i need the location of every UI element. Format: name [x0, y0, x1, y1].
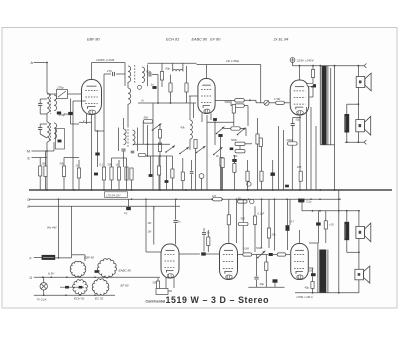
- tube V1 EBF80: [82, 80, 102, 115]
- arrow LS return end: [364, 140, 367, 144]
- svg-text:19r 1.8Ma: 19r 1.8Ma: [226, 59, 239, 63]
- wire: [103, 74, 105, 167]
- wire: [34, 62, 48, 64]
- antenna coil L2: [54, 95, 57, 111]
- wire: [148, 62, 197, 64]
- svg-text:520Ω: 520Ω: [256, 246, 262, 250]
- wire: [224, 128, 231, 130]
- svg-text:0.5M: 0.5M: [243, 247, 250, 251]
- resistor osc: [160, 72, 163, 81]
- switch S1a: [153, 124, 162, 131]
- oscillator coil bumps: [173, 69, 183, 71]
- wire: [289, 199, 291, 225]
- resistor 40k screen: [311, 70, 314, 78]
- wire: [257, 254, 269, 256]
- coupling capacitor blob: [201, 252, 206, 255]
- capacitor 0.1 box: [253, 216, 256, 224]
- B+ supply node: [290, 58, 295, 63]
- wire: [112, 157, 127, 159]
- svg-text:40µ: 40µ: [305, 286, 310, 290]
- wire: [45, 151, 47, 166]
- wire: [358, 211, 360, 226]
- svg-text:40µ: 40µ: [260, 282, 265, 286]
- svg-text:500k: 500k: [231, 138, 237, 142]
- wire: [46, 113, 48, 122]
- capacitor under: [256, 255, 258, 277]
- wire: [291, 145, 293, 190]
- wire: [127, 104, 129, 118]
- line right sub: [302, 210, 359, 212]
- svg-text:Continental: Continental: [146, 299, 166, 303]
- resistor 50k mid: [152, 103, 154, 190]
- antenna coil L1: [47, 93, 50, 113]
- wire: [310, 107, 312, 190]
- output transformer T4 secondary line: [327, 250, 329, 293]
- resistor 0.1: [185, 83, 188, 92]
- svg-text:ECH 81: ECH 81: [74, 296, 85, 300]
- wire: [47, 93, 57, 95]
- wire: [283, 130, 285, 190]
- wire: [32, 150, 55, 152]
- volume pot 500k: [235, 142, 245, 145]
- svg-text:225V +245V: 225V +245V: [296, 59, 315, 63]
- svg-text:27p: 27p: [106, 69, 112, 73]
- tube V6 EL84 lower: [291, 244, 309, 280]
- wire: [58, 199, 60, 258]
- heater envelope ECH81 b: [73, 280, 88, 295]
- wire: [274, 199, 276, 250]
- wire: [140, 155, 172, 157]
- wire: [95, 130, 104, 132]
- svg-text:EABC 80: EABC 80: [119, 268, 132, 272]
- svg-text:1519 W – 3 D – Stereo: 1519 W – 3 D – Stereo: [166, 295, 270, 305]
- wire: [330, 68, 332, 145]
- wire: [346, 133, 348, 143]
- switch S1d: [197, 146, 206, 153]
- heater envelope EC92: [92, 279, 109, 296]
- speaker LS4: [355, 269, 364, 280]
- pot 520 lever: [258, 251, 265, 258]
- svg-text:ECH 81: ECH 81: [166, 38, 179, 42]
- svg-text:0.1: 0.1: [100, 163, 104, 167]
- coil T1b: [142, 67, 145, 83]
- resistor 500k: [232, 105, 235, 114]
- wire: [238, 254, 243, 256]
- wire: [247, 112, 249, 126]
- svg-text:110PF, 2.2M4: 110PF, 2.2M4: [96, 58, 115, 62]
- resistor R3: [62, 166, 65, 177]
- svg-text:+20: +20: [329, 223, 334, 227]
- ground bus: [29, 189, 392, 191]
- wire: [231, 105, 235, 107]
- wire: [252, 254, 257, 256]
- resistor coupling a: [243, 253, 252, 256]
- svg-text:20k: 20k: [271, 233, 277, 237]
- line E: [29, 205, 180, 207]
- capacitor blob r1: [316, 222, 321, 225]
- oscillator coil L5: [190, 120, 192, 139]
- switch S1c: [180, 147, 189, 154]
- capacitor 250p: [68, 112, 73, 115]
- resistor coupling b: [277, 253, 286, 256]
- svg-text:G: G: [30, 276, 33, 280]
- pin stubs V4: [165, 278, 167, 292]
- resistor m8: [233, 163, 236, 172]
- core T1: [134, 65, 136, 84]
- svg-text:EBF 80: EBF 80: [84, 255, 94, 259]
- wire: [68, 93, 83, 95]
- wire: [357, 132, 359, 142]
- wire grid V2: [189, 95, 198, 97]
- svg-text:80p: 80p: [166, 67, 171, 71]
- svg-text:50k: 50k: [153, 281, 158, 285]
- heater return line: [34, 294, 115, 296]
- capacitor 50u blob: [57, 112, 61, 115]
- svg-text:EF 80: EF 80: [121, 284, 129, 288]
- svg-text:500: 500: [241, 217, 246, 221]
- capacitor 4.7 blob: [286, 225, 290, 231]
- line D: [29, 198, 341, 200]
- svg-text:270p: 270p: [56, 86, 64, 90]
- output transformer T2 primary line: [319, 66, 321, 145]
- wire: [248, 286, 284, 288]
- switch S2: [238, 128, 246, 135]
- heater envelope ECH81: [97, 259, 116, 278]
- speaker LS2: [356, 120, 365, 132]
- wire: [39, 110, 41, 114]
- svg-text:Wz 4M: Wz 4M: [47, 226, 57, 230]
- resistor m2: [157, 166, 160, 175]
- tube V4 EABC80: [161, 244, 179, 278]
- wire: [40, 98, 47, 100]
- trimmer circle 2: [247, 182, 251, 186]
- wire: [278, 126, 280, 190]
- filter F2: [235, 104, 245, 107]
- wire: [347, 251, 359, 253]
- svg-text:EBF 80: EBF 80: [87, 38, 100, 42]
- resistor 400: [220, 158, 223, 167]
- wire: [206, 115, 208, 190]
- wire: [215, 100, 234, 102]
- resistor 150: [265, 262, 268, 271]
- resistor 1k d: [238, 200, 247, 203]
- trimmer circle: [199, 174, 204, 179]
- wire plate V2: [206, 65, 208, 79]
- capacitor Cy: [126, 207, 131, 210]
- wire: [118, 160, 120, 162]
- resistor m4: [171, 169, 174, 178]
- resistor R cath V4: [156, 281, 159, 289]
- dial lamp: [40, 283, 47, 290]
- svg-text:50µ: 50µ: [64, 112, 69, 116]
- meter circle: [250, 199, 254, 203]
- wire: [244, 105, 248, 107]
- wire grid V6: [286, 254, 290, 256]
- svg-text:40k: 40k: [181, 126, 186, 130]
- wire: [239, 146, 241, 150]
- tube V3 EL84: [290, 80, 309, 115]
- horizontal link: [207, 121, 234, 123]
- capacitor 1n det: [95, 153, 99, 156]
- svg-text:2x EL 84: 2x EL 84: [273, 38, 289, 42]
- wire: [315, 126, 317, 190]
- resistor R1: [39, 166, 42, 176]
- speaker LS3: [356, 226, 365, 238]
- resistor R6: [110, 167, 113, 180]
- wire: [261, 199, 263, 248]
- capacitor m6: [191, 160, 193, 171]
- svg-text:50k: 50k: [60, 162, 65, 166]
- box shield: [56, 129, 65, 149]
- capacitor blob c: [230, 148, 234, 151]
- IF transformer T1 frame: [124, 63, 126, 87]
- capacitor blob m7: [213, 118, 217, 121]
- wire: [159, 138, 161, 143]
- svg-text:F: F: [30, 257, 32, 261]
- wire: [317, 243, 319, 250]
- tone pot a: [231, 127, 240, 130]
- resistor grid V5: [207, 237, 210, 246]
- choke bar lower: [344, 222, 349, 240]
- resistor R5: [102, 167, 105, 180]
- resistor 1M d: [213, 198, 222, 201]
- coil T3a: [124, 129, 127, 145]
- capacitor 0.1 blob: [232, 159, 236, 162]
- resistor 500 above V5: [227, 215, 230, 225]
- capacitor blob m1: [149, 174, 153, 177]
- bus junction dots: [46, 189, 48, 191]
- tube V2 ECH81: [198, 79, 215, 114]
- resistor 200: [288, 142, 298, 145]
- pot 50k pill: [238, 222, 248, 225]
- output transformer T4 core: [319, 250, 326, 293]
- resistor 4.7k: [194, 140, 197, 149]
- capacitor blob e: [269, 253, 273, 256]
- core L1/L2: [50, 94, 52, 114]
- line D dots: [58, 198, 60, 200]
- capacitor heater b: [60, 286, 84, 288]
- resistor 40u v: [311, 282, 314, 289]
- svg-text:EC 92: EC 92: [95, 296, 104, 300]
- wire: [206, 253, 220, 255]
- resistor R7: [117, 167, 120, 180]
- switch S2b: [214, 147, 223, 155]
- capacitor in heater: [95, 270, 99, 273]
- wire cathode V3: [299, 115, 301, 190]
- wire: [92, 62, 126, 64]
- resistor bar R-LS: [344, 114, 349, 133]
- capacitor 100 blob: [311, 273, 316, 276]
- wire: [71, 206, 73, 255]
- resistor R4: [77, 168, 80, 178]
- capacitor 40u blob: [273, 279, 278, 282]
- resistor 560 v: [260, 171, 263, 181]
- svg-text:500k: 500k: [225, 100, 231, 104]
- B+ rail wire: [293, 65, 364, 67]
- wire: [347, 103, 359, 105]
- wire: [301, 199, 303, 211]
- wire: [293, 117, 300, 119]
- resistor 500 v: [246, 171, 249, 181]
- capacitor 10u blob: [271, 173, 275, 176]
- heater supply line G: [34, 276, 160, 278]
- capacitor 1n V5grid: [203, 228, 205, 232]
- pin stubs V2: [201, 114, 203, 123]
- svg-text:0r: 0r: [142, 99, 144, 103]
- wire: [292, 62, 294, 65]
- wire: [338, 190, 340, 293]
- resistor 20k v: [267, 228, 270, 238]
- wire: [64, 157, 79, 159]
- wire: [309, 267, 313, 269]
- output transformer T2 secondary line: [327, 66, 329, 145]
- wire: [256, 102, 264, 104]
- wire LS return: [345, 141, 364, 143]
- wire: [189, 113, 191, 120]
- svg-text:M: M: [27, 150, 30, 154]
- volume pot 50k: [235, 150, 245, 153]
- bottom return line: [295, 292, 359, 294]
- capacitor 80.5u: [291, 123, 295, 125]
- trimmer C: [264, 100, 269, 105]
- wire: [34, 257, 42, 259]
- wire: [244, 99, 256, 101]
- svg-text:50k: 50k: [108, 163, 113, 167]
- capacitor blob m9: [285, 185, 289, 188]
- trimmer 270p: [57, 90, 68, 99]
- wire: [299, 230, 301, 243]
- resistor 90k: [169, 83, 172, 92]
- core T3: [127, 129, 129, 148]
- wire: [146, 251, 161, 253]
- capacitor blob b: [218, 134, 222, 137]
- switch S2c: [217, 127, 225, 134]
- wire: [145, 199, 147, 252]
- wire: [79, 121, 92, 123]
- svg-text:3.2µ: 3.2µ: [306, 199, 312, 203]
- wire: [138, 102, 196, 104]
- wire: [127, 118, 129, 128]
- capacitor blob: [94, 173, 98, 176]
- svg-text:50k: 50k: [233, 154, 238, 158]
- wire grid V3: [284, 102, 289, 104]
- wire: [320, 144, 334, 146]
- wire: [123, 118, 125, 129]
- svg-text:185: 185: [297, 165, 302, 169]
- band coil L3: [47, 122, 50, 142]
- resistor R8: [125, 167, 128, 180]
- speaker LS1: [356, 77, 365, 88]
- pot 0.5M: [138, 153, 146, 156]
- wire: [273, 254, 277, 256]
- wire plate V3: [299, 66, 301, 80]
- wire: [71, 255, 73, 258]
- resistor 1k a: [158, 130, 161, 139]
- svg-text:LT0.5/4.2SY: LT0.5/4.2SY: [107, 193, 121, 197]
- resistor 1k b: [158, 143, 161, 152]
- wire: [43, 277, 45, 282]
- jack box below V4: [156, 289, 168, 295]
- resistor R9: [130, 168, 133, 180]
- svg-text:1.5M: 1.5M: [274, 97, 281, 101]
- wire: [358, 238, 360, 269]
- resistor 46: [221, 158, 224, 168]
- svg-text:7V 0,2A: 7V 0,2A: [37, 297, 47, 301]
- wire: [357, 66, 359, 77]
- wire: [179, 253, 200, 255]
- heater envelope EBF80: [70, 261, 86, 277]
- capacitor C1: [39, 99, 41, 103]
- resistor m5: [181, 172, 184, 181]
- wire: [32, 157, 48, 159]
- svg-text:200Δ: 200Δ: [286, 138, 293, 142]
- resistor R2: [44, 166, 47, 177]
- wire: [236, 199, 238, 243]
- pin 7 V1: [94, 115, 96, 132]
- wire: [269, 102, 276, 104]
- output transformer T4 primary line: [317, 250, 319, 293]
- wire: [358, 280, 360, 293]
- resistor 4.7k b: [259, 138, 262, 147]
- capacitor +3.2u: [298, 199, 304, 203]
- arrow B+ rail end: [364, 64, 367, 68]
- capacitor 1n shield: [58, 140, 62, 143]
- core L3/L4: [50, 123, 52, 142]
- wire: [46, 63, 48, 94]
- filter F1: [235, 99, 245, 102]
- svg-text:EABC 80 EF 80: EABC 80 EF 80: [192, 38, 222, 42]
- resistor 185: [299, 171, 302, 181]
- svg-text:50k: 50k: [144, 116, 149, 120]
- svg-text:0.1µF: 0.1µF: [258, 212, 265, 216]
- coil T1a: [128, 66, 131, 82]
- coil T1c: [128, 88, 131, 104]
- capacitor C2: [39, 124, 41, 127]
- IF transformer T3 frame: [118, 128, 120, 152]
- capacitor screen: [312, 78, 314, 84]
- svg-text:1n: 1n: [151, 83, 155, 87]
- capacitor blob m3: [165, 180, 169, 183]
- svg-text:6,3V: 6,3V: [48, 272, 55, 276]
- band coil L4: [54, 123, 57, 139]
- wire cathode V1: [91, 115, 93, 191]
- resistor +20: [324, 221, 327, 229]
- wire: [153, 206, 155, 244]
- output transformer T2 core: [322, 66, 327, 145]
- bus label box: [105, 192, 128, 198]
- coupling capacitor 5n: [175, 199, 177, 219]
- wire: [357, 88, 359, 120]
- svg-text:4.7: 4.7: [291, 220, 295, 224]
- wire: [153, 206, 155, 210]
- wire: [55, 257, 71, 259]
- pin 2 V1: [86, 114, 88, 124]
- wire: [133, 143, 170, 145]
- pill 200: [307, 83, 313, 86]
- resistor 1.5M v: [256, 134, 259, 144]
- wire plate V1: [91, 63, 93, 80]
- ferrite rod antenna: [42, 255, 56, 260]
- wire: [193, 103, 195, 118]
- coil T3b: [133, 130, 136, 145]
- trimmer circle T1: [138, 85, 142, 89]
- wire: [70, 99, 72, 113]
- tube V5 EL84 lower: [220, 244, 238, 280]
- wire: [254, 224, 256, 252]
- wire: [73, 100, 86, 102]
- switch S1b: [166, 146, 175, 153]
- wire: [334, 66, 336, 190]
